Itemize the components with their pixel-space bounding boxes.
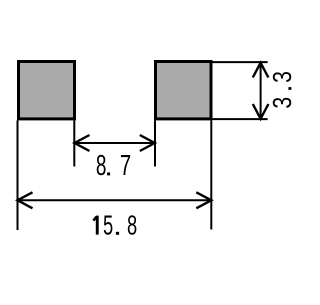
pad right [156, 62, 212, 119]
arrowhead 8.7 left [75, 135, 90, 151]
label 8.7 period [107, 172, 110, 175]
label 8.7 [96, 149, 131, 182]
svg-text:5: 5 [103, 211, 113, 242]
svg-text:8: 8 [127, 211, 137, 242]
digit 1 stem [96, 216, 99, 235]
extension line: pad top edge (for 3.3) [213, 61, 268, 63]
dimension line 8.7 [75, 142, 155, 144]
label 15.8 [93, 211, 137, 242]
svg-text:7: 7 [120, 149, 131, 181]
svg-text:8: 8 [96, 150, 107, 182]
arrowhead 15.8 right [196, 192, 211, 208]
arrowhead 15.8 left [18, 192, 33, 208]
svg-text:3: 3 [268, 97, 298, 109]
svg-text:3: 3 [268, 71, 298, 83]
label 3.3 period (rotated) [288, 87, 291, 90]
arrowhead 8.7 right [140, 135, 155, 151]
digit 1 flag [93, 217, 96, 221]
extension line: right pad left edge (for 8.7) [154, 120, 156, 166]
dimension line 3.3 (vertical) [260, 63, 262, 119]
pad left [19, 62, 75, 119]
extension line: left pad right edge (for 8.7) [73, 120, 75, 166]
dimension line 15.8 [18, 199, 212, 201]
arrowhead 3.3 bottom [253, 104, 269, 119]
label 3.3 (rotated) [268, 71, 298, 109]
extension line: pad bottom edge (for 3.3) [213, 118, 268, 120]
extension line: left pad left edge (for 15.8) [17, 120, 19, 230]
extension line: right pad right edge (for 15.8) [210, 120, 212, 229]
label 15.8 period [116, 232, 119, 235]
arrowhead 3.3 top [253, 63, 269, 78]
